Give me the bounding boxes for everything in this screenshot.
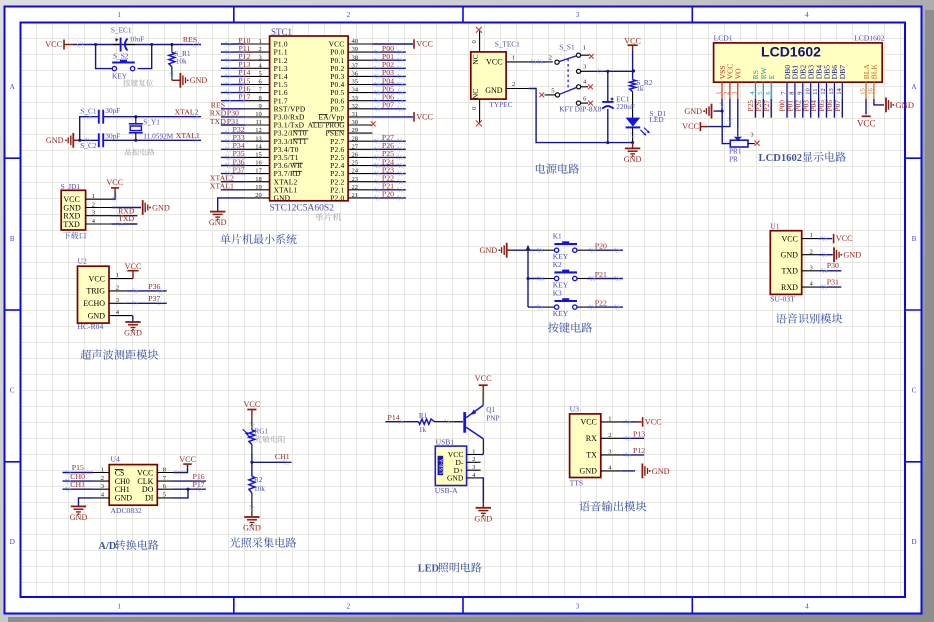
svg-text:2: 2 — [347, 11, 351, 19]
svg-text:GND: GND — [88, 311, 106, 320]
svg-text:1: 1 — [608, 416, 611, 423]
svg-text:VCC: VCC — [580, 418, 596, 427]
svg-text:RG1: RG1 — [254, 426, 268, 435]
svg-text:P37: P37 — [233, 165, 245, 174]
svg-text:S_EC1: S_EC1 — [111, 26, 132, 35]
svg-text:PNP: PNP — [486, 413, 499, 422]
svg-text:VCC: VCC — [416, 40, 433, 49]
svg-text:P20: P20 — [595, 242, 607, 251]
svg-text:39: 39 — [352, 46, 359, 53]
svg-text:4: 4 — [805, 602, 809, 610]
svg-text:GND: GND — [624, 155, 642, 164]
svg-text:12: 12 — [820, 88, 827, 95]
svg-text:38: 38 — [352, 54, 359, 61]
svg-text:GND: GND — [781, 251, 799, 260]
svg-text:1: 1 — [716, 92, 723, 95]
svg-text:2: 2 — [810, 248, 813, 255]
svg-text:P37: P37 — [148, 294, 160, 303]
svg-text:C: C — [912, 387, 917, 395]
svg-text:EA/Vpp: EA/Vpp — [319, 113, 345, 122]
svg-text:36: 36 — [352, 71, 359, 78]
svg-text:P30: P30 — [827, 261, 839, 270]
svg-text:13: 13 — [828, 88, 835, 95]
svg-text:28: 28 — [352, 135, 359, 142]
svg-text:LED: LED — [418, 563, 439, 574]
svg-text:VCC: VCC — [486, 58, 502, 67]
svg-text:GND: GND — [124, 329, 142, 338]
svg-text:VCC: VCC — [89, 274, 105, 283]
svg-text:1: 1 — [583, 44, 586, 51]
svg-text:1: 1 — [259, 38, 262, 45]
svg-text:2: 2 — [347, 602, 351, 610]
svg-text:K3: K3 — [553, 288, 562, 297]
svg-text:XTAL1: XTAL1 — [210, 182, 234, 191]
svg-text:35: 35 — [352, 79, 359, 86]
svg-text:11: 11 — [255, 119, 261, 126]
svg-text:TXD: TXD — [210, 117, 226, 126]
svg-text:GND: GND — [115, 494, 133, 503]
svg-text:B: B — [912, 235, 917, 243]
svg-text:KEY: KEY — [553, 309, 569, 318]
svg-text:P21: P21 — [595, 270, 607, 279]
svg-text:13: 13 — [255, 135, 262, 142]
svg-text:1: 1 — [472, 448, 475, 455]
svg-text:GND: GND — [46, 136, 64, 145]
svg-text:33: 33 — [352, 95, 359, 102]
svg-text:29: 29 — [352, 127, 359, 134]
svg-text:21: 21 — [352, 192, 359, 199]
svg-text:VCC: VCC — [106, 178, 123, 187]
svg-text:220uF: 220uF — [616, 102, 635, 111]
svg-text:2: 2 — [512, 81, 515, 88]
svg-text:U2: U2 — [78, 257, 87, 266]
svg-text:2: 2 — [259, 46, 262, 53]
svg-text:23: 23 — [352, 176, 359, 183]
svg-text:TRIG: TRIG — [86, 287, 105, 296]
svg-text:A/D: A/D — [98, 541, 116, 552]
svg-text:2: 2 — [101, 475, 104, 482]
svg-text:P07: P07 — [833, 100, 842, 112]
svg-text:RXD: RXD — [781, 283, 798, 292]
svg-text:S_TEC1: S_TEC1 — [495, 39, 520, 48]
svg-text:GND: GND — [274, 194, 291, 203]
svg-text:GND: GND — [580, 467, 598, 476]
svg-text:2: 2 — [608, 432, 611, 439]
svg-text:R2: R2 — [254, 475, 263, 484]
svg-text:GND: GND — [447, 474, 464, 483]
svg-text:S_C2: S_C2 — [80, 141, 97, 150]
svg-text:P22: P22 — [595, 299, 607, 308]
svg-text:R1: R1 — [419, 411, 428, 420]
svg-text:P20: P20 — [382, 190, 394, 199]
svg-text:CH1: CH1 — [70, 480, 85, 489]
svg-text:27: 27 — [352, 143, 359, 150]
svg-text:NC: NC — [471, 54, 480, 65]
svg-text:NC: NC — [471, 89, 480, 100]
svg-text:14: 14 — [255, 143, 262, 150]
svg-text:KEY: KEY — [112, 71, 128, 80]
svg-text:LCD1602: LCD1602 — [854, 34, 885, 43]
svg-text:P27: P27 — [762, 100, 771, 112]
svg-text:S_Y1: S_Y1 — [143, 117, 160, 126]
svg-text:TXD: TXD — [781, 267, 798, 276]
svg-text:20: 20 — [255, 192, 262, 199]
svg-text:RX: RX — [586, 434, 597, 443]
svg-text:U3: U3 — [570, 405, 579, 414]
svg-text:15: 15 — [860, 88, 867, 95]
svg-text:32: 32 — [352, 103, 359, 110]
svg-text:VCC: VCC — [243, 400, 260, 409]
svg-text:CH1: CH1 — [115, 485, 130, 494]
svg-text:P07: P07 — [382, 101, 394, 110]
svg-text:KFT DIP-8X8: KFT DIP-8X8 — [559, 104, 602, 113]
svg-text:K2: K2 — [553, 260, 562, 269]
svg-text:VCC: VCC — [416, 113, 433, 122]
svg-text:16: 16 — [255, 160, 262, 167]
svg-text:PR: PR — [729, 155, 738, 164]
svg-text:1k: 1k — [419, 425, 427, 434]
svg-text:GND: GND — [190, 76, 208, 85]
svg-text:TTS: TTS — [570, 478, 584, 487]
svg-text:3: 3 — [576, 602, 580, 610]
svg-text:GND: GND — [152, 203, 170, 212]
svg-text:4: 4 — [805, 11, 809, 19]
svg-text:HC-R04: HC-R04 — [78, 322, 104, 331]
svg-text:S_S2: S_S2 — [113, 51, 129, 60]
svg-text:3: 3 — [576, 11, 580, 19]
svg-text:GND: GND — [243, 524, 261, 533]
svg-text:CH1: CH1 — [275, 452, 290, 461]
svg-text:3: 3 — [751, 131, 754, 138]
svg-text:26: 26 — [352, 152, 359, 159]
svg-text:VCC: VCC — [836, 234, 853, 243]
svg-text:VCC: VCC — [624, 36, 641, 45]
svg-text:11.0592M: 11.0592M — [143, 131, 173, 140]
svg-text:25: 25 — [352, 160, 359, 167]
svg-text:P31: P31 — [827, 278, 839, 287]
svg-text:1k: 1k — [636, 84, 644, 93]
svg-text:15: 15 — [255, 152, 262, 159]
svg-text:ADC0832: ADC0832 — [111, 506, 142, 515]
svg-text:GND: GND — [843, 251, 861, 260]
svg-text:2: 2 — [472, 456, 475, 463]
svg-text:S_S1: S_S1 — [559, 43, 575, 52]
svg-text:37: 37 — [352, 62, 359, 69]
svg-text:VO: VO — [734, 68, 743, 79]
svg-text:USB-A: USB-A — [440, 459, 445, 474]
svg-text:1: 1 — [92, 193, 95, 200]
svg-text:GND: GND — [70, 513, 88, 522]
svg-text:VCC: VCC — [45, 40, 62, 49]
svg-text:18: 18 — [255, 176, 262, 183]
svg-text:1: 1 — [101, 466, 104, 473]
svg-text:34: 34 — [352, 87, 359, 94]
svg-text:DI: DI — [145, 494, 154, 503]
svg-text:10: 10 — [804, 88, 811, 95]
svg-text:A: A — [911, 83, 917, 91]
svg-text:TYPEC: TYPEC — [489, 100, 512, 109]
svg-text:DB7: DB7 — [838, 65, 847, 80]
svg-text:P12: P12 — [633, 446, 645, 455]
svg-text:XTAL2: XTAL2 — [174, 107, 198, 116]
svg-text:A: A — [10, 83, 16, 91]
svg-text:1: 1 — [117, 602, 121, 610]
svg-text:10k: 10k — [254, 484, 265, 493]
svg-text:3: 3 — [472, 464, 475, 471]
svg-text:11: 11 — [812, 88, 819, 94]
svg-text:30pF: 30pF — [105, 132, 120, 141]
svg-text:P17: P17 — [193, 480, 205, 489]
svg-text:TXD: TXD — [63, 220, 80, 229]
svg-text:VCC: VCC — [125, 262, 142, 271]
svg-text:GND: GND — [684, 107, 702, 116]
svg-text:GND: GND — [895, 100, 914, 110]
svg-text:VCC: VCC — [475, 374, 492, 383]
svg-text:VCC: VCC — [781, 234, 797, 243]
svg-text:C: C — [10, 387, 15, 395]
svg-text:VCC: VCC — [857, 118, 876, 128]
svg-text:ECHO: ECHO — [83, 299, 105, 308]
svg-text:GND: GND — [652, 467, 670, 476]
svg-text:E: E — [767, 74, 776, 79]
svg-text:10: 10 — [255, 111, 262, 118]
svg-text:P36: P36 — [148, 282, 160, 291]
svg-text:GND: GND — [474, 514, 492, 523]
svg-text:B: B — [10, 235, 15, 243]
svg-text:LED: LED — [650, 115, 664, 124]
svg-text:31: 31 — [352, 111, 359, 118]
svg-text:LCD1602: LCD1602 — [761, 43, 821, 59]
svg-text:GND: GND — [485, 86, 503, 95]
svg-text:16: 16 — [868, 88, 875, 95]
svg-text:22: 22 — [352, 184, 359, 191]
svg-text:1: 1 — [810, 232, 813, 239]
svg-text:D: D — [911, 538, 916, 546]
svg-text:GND: GND — [209, 218, 227, 227]
svg-text:10k: 10k — [176, 57, 187, 66]
svg-text:12: 12 — [255, 127, 262, 134]
svg-text:1: 1 — [512, 54, 515, 61]
svg-text:RES: RES — [183, 35, 197, 44]
svg-text:LCD1602: LCD1602 — [759, 153, 803, 164]
svg-text:K1: K1 — [553, 232, 562, 241]
svg-text:2: 2 — [549, 54, 552, 61]
svg-text:U1: U1 — [770, 222, 779, 231]
svg-text:USB1: USB1 — [436, 437, 455, 446]
svg-text:STC12C5A60S2: STC12C5A60S2 — [270, 204, 335, 214]
svg-text:USB-A: USB-A — [435, 486, 458, 495]
svg-text:14: 14 — [836, 88, 843, 95]
svg-text:BLK: BLK — [870, 64, 879, 80]
svg-text:10uF: 10uF — [129, 35, 144, 44]
svg-text:30: 30 — [352, 119, 359, 126]
svg-text:SU-03T: SU-03T — [770, 295, 795, 304]
svg-text:2: 2 — [92, 201, 95, 208]
svg-text:30pF: 30pF — [105, 106, 120, 115]
svg-text:LCD1: LCD1 — [714, 34, 733, 43]
svg-text:19: 19 — [255, 184, 262, 191]
svg-text:TX: TX — [586, 451, 597, 460]
svg-text:1: 1 — [117, 11, 121, 19]
svg-text:VCC: VCC — [179, 455, 196, 464]
svg-text:17: 17 — [255, 168, 262, 175]
svg-text:VCC: VCC — [645, 418, 662, 427]
svg-text:2: 2 — [724, 92, 731, 95]
svg-text:24: 24 — [352, 168, 359, 175]
svg-text:U4: U4 — [111, 455, 120, 464]
svg-text:D: D — [10, 538, 15, 546]
svg-text:40: 40 — [352, 38, 359, 45]
svg-text:P2.0: P2.0 — [330, 194, 344, 203]
svg-text:P13: P13 — [633, 429, 645, 438]
svg-text:GND: GND — [479, 246, 497, 255]
svg-text:DO: DO — [142, 485, 154, 494]
svg-text:VCC: VCC — [682, 122, 699, 131]
